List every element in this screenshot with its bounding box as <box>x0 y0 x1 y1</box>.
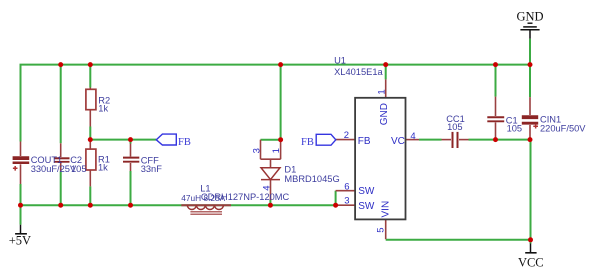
svg-text:XL4015E1a: XL4015E1a <box>334 67 383 77</box>
svg-text:3: 3 <box>344 196 349 207</box>
svg-text:47uH: 47uH <box>181 193 201 203</box>
svg-text:FB: FB <box>301 137 314 148</box>
svg-text:FB: FB <box>178 137 191 148</box>
svg-text:4: 4 <box>410 131 415 142</box>
svg-text:1k: 1k <box>98 103 108 113</box>
svg-text:MBRD1045G: MBRD1045G <box>284 174 339 184</box>
svg-text:SW: SW <box>358 186 375 197</box>
svg-text:2: 2 <box>344 130 349 141</box>
svg-text:U1: U1 <box>334 55 346 65</box>
svg-text:SW: SW <box>358 201 375 212</box>
svg-text:FB: FB <box>358 136 371 147</box>
svg-text:220uF/50V: 220uF/50V <box>540 123 586 133</box>
svg-text:VC: VC <box>391 136 405 147</box>
svg-text:4: 4 <box>261 185 272 190</box>
svg-text:VIN: VIN <box>381 201 392 218</box>
svg-text:5: 5 <box>375 228 386 233</box>
svg-text:8.25A: 8.25A <box>204 193 226 203</box>
svg-text:105: 105 <box>71 164 87 174</box>
svg-text:GND: GND <box>379 103 390 125</box>
svg-text:105: 105 <box>507 124 523 134</box>
svg-text:6: 6 <box>344 181 349 192</box>
svg-text:1: 1 <box>271 148 282 153</box>
svg-text:105: 105 <box>447 122 463 132</box>
svg-text:1: 1 <box>376 89 387 94</box>
svg-text:VCC: VCC <box>518 255 544 269</box>
svg-text:+5V: +5V <box>9 233 31 247</box>
svg-text:3: 3 <box>252 148 263 153</box>
svg-text:GND: GND <box>516 9 543 23</box>
svg-text:1k: 1k <box>98 163 108 173</box>
svg-text:33nF: 33nF <box>141 164 163 174</box>
